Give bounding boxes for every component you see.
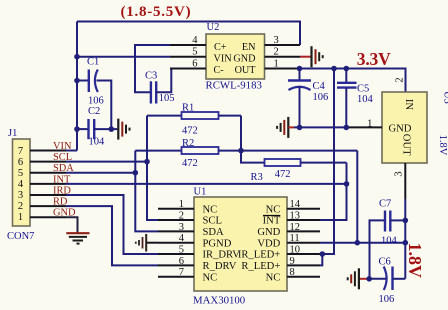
svg-text:R1: R1 [182, 103, 194, 114]
net labels VIN SCL SDA INT IRD RD GND [53, 141, 76, 219]
ground symbol C6 [348, 268, 370, 289]
svg-text:VDD: VDD [257, 238, 280, 249]
svg-text:1.8V: 1.8V [405, 242, 425, 278]
svg-text:C5: C5 [357, 84, 369, 95]
label 3.3V [357, 49, 391, 69]
svg-text:105: 105 [159, 93, 175, 104]
svg-text:C3: C3 [145, 71, 157, 82]
svg-text:R3: R3 [251, 172, 263, 183]
capacitor C4 [288, 69, 328, 128]
svg-text:472: 472 [182, 158, 198, 169]
wire VIN J1 to rail [66, 150, 77, 152]
svg-text:6: 6 [179, 256, 184, 267]
svg-text:7: 7 [18, 146, 23, 157]
U3 pin name IN (rotated) [403, 99, 414, 111]
svg-text:R_LED+: R_LED+ [241, 261, 280, 272]
J1 pin numbers 7-1 [18, 146, 24, 223]
svg-text:C6: C6 [379, 256, 391, 267]
svg-text:10: 10 [290, 245, 301, 256]
wire 1.8V rail [404, 199, 406, 279]
resistor R2 [135, 138, 357, 169]
svg-text:U3: U3 [441, 91, 448, 104]
capacitor C5 [337, 69, 374, 128]
svg-text:CON7: CON7 [7, 231, 34, 242]
wire ground row to U3 pin1 [288, 126, 346, 128]
svg-text:GND: GND [233, 53, 255, 64]
svg-text:4: 4 [18, 179, 24, 190]
ground symbol C4 [277, 117, 288, 138]
connector J1 body [13, 139, 31, 226]
svg-text:C1: C1 [87, 57, 99, 68]
svg-text:SDA: SDA [203, 227, 225, 238]
svg-text:RD: RD [53, 197, 68, 208]
svg-text:106: 106 [313, 92, 329, 103]
wire: VIN top rail horizontal [77, 22, 300, 46]
node SCL [144, 159, 150, 165]
svg-text:2: 2 [179, 211, 184, 222]
capacitor C2 [77, 106, 117, 148]
svg-text:5: 5 [179, 245, 184, 256]
wire pin9 riser [320, 254, 322, 265]
U2 pin stubs [170, 45, 300, 69]
IC U1 body [194, 197, 287, 291]
svg-text:NC: NC [203, 272, 218, 283]
ground symbol C2 [118, 119, 129, 140]
svg-text:2: 2 [394, 77, 405, 82]
U3 pin number 1 [367, 118, 373, 130]
U1 left pin stubs [158, 209, 194, 277]
svg-text:R_DRV: R_DRV [203, 261, 237, 272]
svg-text:EN: EN [242, 42, 256, 53]
svg-text:IR_DRV: IR_DRV [203, 250, 241, 261]
svg-text:3: 3 [18, 190, 23, 201]
svg-text:C2: C2 [88, 106, 100, 117]
svg-text:U1: U1 [194, 187, 207, 198]
wire R2 left to SDA to U1 pin3 [135, 151, 158, 232]
svg-text:13: 13 [290, 211, 301, 222]
node gnd/C5 [344, 125, 350, 131]
svg-text:8: 8 [290, 267, 295, 278]
U2 pin numbers [192, 35, 279, 70]
svg-text:C7: C7 [379, 198, 391, 209]
resistor R3 [251, 159, 347, 183]
wire VDD row [320, 242, 405, 244]
U3 pin number 3 (rotated) [394, 171, 405, 176]
svg-text:1: 1 [18, 212, 23, 223]
svg-text:4: 4 [179, 233, 185, 244]
svg-text:104: 104 [357, 94, 374, 105]
U1 left pin names [203, 204, 241, 283]
svg-text:C-: C- [214, 65, 225, 76]
node C6/gnd [366, 276, 372, 282]
node 3.3V/C5 [344, 66, 350, 72]
svg-text:IR_LED+: IR_LED+ [238, 250, 280, 261]
svg-text:SCL: SCL [203, 216, 222, 227]
wire RD [66, 206, 158, 265]
label U1 [194, 187, 207, 198]
svg-text:5: 5 [18, 168, 23, 179]
svg-text:472: 472 [275, 169, 291, 180]
U1 pin13 INT overline [263, 215, 280, 217]
svg-text:PGND: PGND [203, 238, 232, 249]
node R1-R2-R3 [238, 148, 244, 154]
node VIN/U2 pin5 [74, 54, 80, 60]
U1 right pin numbers 14-8 [290, 199, 301, 278]
node 3.3V/vertical A [331, 66, 337, 72]
svg-text:RCWL-9183: RCWL-9183 [206, 80, 262, 92]
U1 left pin numbers 1-7 [179, 199, 185, 278]
label MAX30100 [193, 295, 245, 307]
svg-text:R2: R2 [182, 138, 194, 149]
node 3.3V/C4 [297, 66, 303, 72]
svg-text:1: 1 [179, 199, 184, 210]
node LED+ pins 9-10 [320, 251, 326, 257]
U3 pin number 2 (rotated) [394, 77, 405, 82]
wire GND J1 [66, 217, 78, 233]
wire U2 pin2 to ground [300, 56, 311, 58]
wire R1 left to SCL to U1 pin2 [147, 116, 158, 220]
node C1/C2 gnd side [109, 126, 115, 132]
U1 right pin stubs [287, 209, 320, 277]
wire R2 right to VDD [356, 151, 358, 243]
wire INT [66, 183, 347, 185]
svg-text:472: 472 [182, 126, 198, 137]
node C2 tap [74, 126, 80, 132]
wire IRD [66, 195, 158, 254]
J1 pin stubs [30, 151, 66, 218]
label U2 [207, 22, 220, 33]
ground symbol J1 [66, 233, 89, 243]
label 1.8V part value (rotated) [437, 135, 448, 156]
svg-text:U2: U2 [207, 22, 220, 33]
capacitor C7 [370, 198, 406, 278]
svg-text:106: 106 [379, 294, 395, 305]
label CON7 [7, 231, 34, 242]
wire: VIN left rail vertical [76, 22, 78, 151]
U3 pin name GND [389, 124, 412, 135]
svg-text:GND: GND [257, 227, 280, 238]
svg-text:104: 104 [381, 236, 398, 247]
svg-text:6: 6 [18, 157, 23, 168]
U3 pin name OUT (rotated) [400, 134, 411, 156]
svg-text:NC: NC [203, 204, 218, 215]
svg-text:2: 2 [18, 201, 23, 212]
node gnd/C4 [297, 125, 303, 131]
capacitor C3 [145, 69, 174, 104]
wire 3.3V rail [300, 69, 406, 93]
svg-text:C+: C+ [214, 42, 227, 53]
capacitor C6 [369, 256, 405, 305]
svg-text:INT: INT [263, 216, 281, 227]
node C7/1.8V rail [403, 218, 409, 224]
svg-text:MAX30100: MAX30100 [193, 295, 245, 307]
svg-text:14: 14 [290, 199, 301, 210]
ground symbol U2 pin2 [312, 46, 323, 67]
svg-text:106: 106 [88, 96, 104, 107]
wire U2 pin4 to C3 [135, 45, 170, 92]
label 1.8V net (rotated) [405, 242, 425, 278]
wire 3.3V to LED+ (vertical A) [320, 69, 334, 255]
U3 pin1 stub [346, 126, 382, 128]
svg-text:C4: C4 [313, 81, 326, 92]
regulator U3 body [382, 92, 427, 163]
svg-text:9: 9 [290, 256, 295, 267]
svg-text:NC: NC [266, 204, 281, 215]
svg-text:3: 3 [179, 222, 184, 233]
node VDD/1.8V rail [403, 240, 409, 246]
label J1 [8, 128, 17, 139]
svg-text:J1: J1 [8, 128, 17, 139]
svg-text:OUT: OUT [400, 134, 411, 156]
svg-text:104: 104 [89, 137, 106, 148]
label U3 (rotated) [441, 91, 448, 104]
U1 right pin names [238, 204, 281, 283]
IC U2 body [206, 34, 265, 79]
wire R1 right to R3 left [241, 116, 265, 163]
svg-text:(1.8-5.5V): (1.8-5.5V) [121, 4, 192, 20]
svg-text:1.8V: 1.8V [437, 135, 448, 156]
node VDD/R2 [355, 240, 361, 246]
svg-text:NC: NC [266, 272, 281, 283]
svg-text:3: 3 [394, 171, 405, 176]
wire U2 pin5 to rail [77, 56, 170, 58]
node INT [344, 181, 350, 187]
svg-text:VIN: VIN [214, 53, 233, 64]
capacitor C1 [77, 57, 111, 130]
resistor R1 [147, 103, 241, 137]
ground symbol PGND [136, 234, 158, 252]
label RCWL-9183 [206, 80, 262, 92]
svg-text:7: 7 [179, 267, 184, 278]
wire R3 right to INT to U1 pin13 [320, 163, 347, 220]
label (1.8-5.5V) [121, 4, 192, 20]
svg-text:OUT: OUT [235, 65, 257, 76]
svg-text:11: 11 [290, 233, 300, 244]
wire SCL [66, 161, 147, 163]
svg-text:12: 12 [290, 222, 301, 233]
svg-text:IN: IN [403, 99, 414, 111]
U2 pin names [214, 42, 257, 76]
svg-text:3.3V: 3.3V [357, 49, 391, 69]
U3 pin3 stub [404, 163, 406, 199]
node C1 tap [74, 78, 80, 84]
wire SDA [66, 172, 135, 174]
node SDA [133, 170, 139, 176]
